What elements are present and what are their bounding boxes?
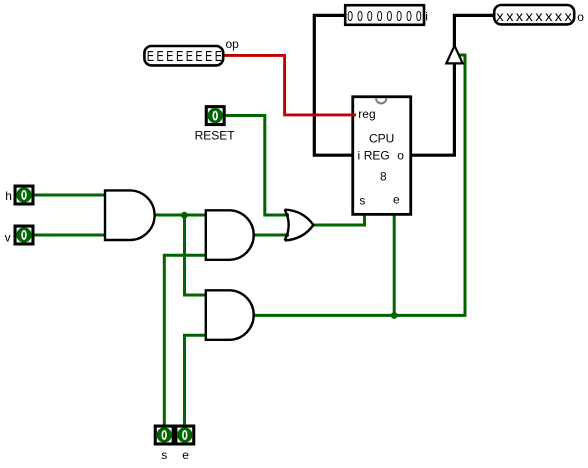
output pin o value xxxxxxxx (494, 5, 574, 24)
svg-text:E: E (195, 49, 202, 65)
svg-text:0: 0 (347, 9, 353, 25)
svg-text:x: x (506, 8, 513, 24)
svg-text:i: i (358, 149, 361, 163)
svg-text:0: 0 (396, 9, 402, 25)
AND gate 1 (105, 190, 155, 240)
wire h pin to AND1 top input (34, 194, 106, 197)
svg-text:x: x (545, 8, 552, 24)
svg-text:s: s (161, 448, 167, 462)
svg-text:x: x (516, 8, 523, 24)
AND gate 3 (206, 290, 254, 340)
wire junction down to AND3 top input (185, 215, 207, 295)
svg-text:E: E (215, 49, 222, 65)
OR gate (285, 210, 314, 241)
svg-text:8: 8 (380, 170, 387, 184)
svg-text:0: 0 (406, 9, 412, 25)
input pin i value 00000000 (345, 5, 424, 25)
svg-text:E: E (166, 49, 173, 65)
input pin v (14, 225, 35, 246)
svg-text:0: 0 (357, 9, 363, 25)
port stub reg (351, 113, 356, 116)
wire OR output to CPU REG s (314, 213, 365, 225)
svg-text:E: E (176, 49, 183, 65)
wire AND2 output to OR bottom input (254, 234, 289, 237)
svg-text:E: E (147, 49, 154, 65)
svg-text:E: E (157, 49, 164, 65)
svg-text:x: x (555, 8, 562, 24)
svg-text:o: o (577, 10, 584, 24)
svg-text:x: x (496, 8, 503, 24)
AND gate 2 (206, 210, 254, 259)
svg-text:o: o (397, 149, 404, 163)
svg-text:REG: REG (364, 149, 390, 163)
input pin RESET (205, 105, 226, 126)
svg-text:0: 0 (377, 9, 383, 25)
input pin h (14, 185, 35, 206)
svg-text:E: E (186, 49, 193, 65)
svg-text:CPU: CPU (369, 132, 394, 146)
wire op to reg (red, error bus) (223, 55, 356, 115)
output pin op value EEEEEEEE (144, 46, 223, 65)
controlled buffer (tri-state, facing north) (446, 46, 462, 64)
svg-text:s: s (359, 193, 365, 207)
svg-text:op: op (226, 37, 240, 51)
svg-text:RESET: RESET (195, 128, 236, 142)
facing-north chevron (376, 98, 386, 103)
svg-text:0: 0 (416, 9, 422, 25)
wire e pin up to AND3 bottom input (185, 335, 207, 425)
wire input pin i to CPU REG i (black bus) (314, 15, 354, 155)
wire s pin up to AND2 bottom input (164, 255, 206, 425)
input pin e (bottom) (174, 425, 195, 446)
svg-text:x: x (565, 8, 572, 24)
svg-text:reg: reg (358, 107, 375, 121)
svg-text:v: v (5, 231, 11, 245)
subcircuit CPU REG (351, 97, 411, 215)
svg-text:0: 0 (387, 9, 393, 25)
svg-text:i: i (425, 10, 428, 24)
svg-text:x: x (535, 8, 542, 24)
junction dot B (AND3 output / e net) (391, 312, 398, 319)
input pin s (bottom) (154, 425, 175, 446)
wire CPU REG o to buffer input (black bus) (409, 65, 454, 156)
svg-text:e: e (393, 192, 400, 206)
svg-text:0: 0 (367, 9, 373, 25)
wire AND1 output to AND2 top input (154, 214, 207, 217)
svg-text:e: e (182, 448, 189, 462)
wire buffer output to pin o (black bus) (454, 15, 494, 46)
wire v pin to AND1 bottom input (34, 234, 106, 237)
svg-text:E: E (205, 49, 212, 65)
svg-text:h: h (5, 189, 12, 203)
junction dot A (AND1 output fanout) (181, 212, 188, 219)
svg-text:x: x (526, 8, 533, 24)
wire AND3 output to buffer enable (254, 55, 466, 315)
wire RESET to OR top input (226, 116, 290, 216)
wire CPU REG e down to junction (393, 213, 396, 315)
